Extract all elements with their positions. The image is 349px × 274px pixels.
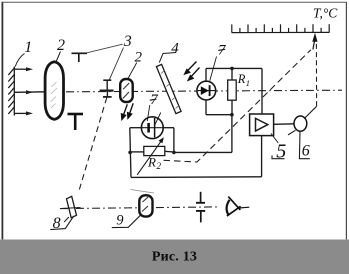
svg-text:2: 2 bbox=[57, 37, 65, 54]
svg-text:9: 9 bbox=[116, 212, 124, 228]
svg-text:8: 8 bbox=[53, 215, 61, 232]
svg-text:6: 6 bbox=[302, 143, 310, 160]
svg-text:1: 1 bbox=[246, 78, 250, 88]
svg-text:2: 2 bbox=[157, 161, 162, 171]
svg-text:2: 2 bbox=[135, 50, 143, 66]
svg-text:R: R bbox=[147, 155, 156, 170]
svg-text:5: 5 bbox=[276, 140, 286, 162]
svg-text:T,°C: T,°C bbox=[313, 6, 338, 21]
svg-text:Рис. 13: Рис. 13 bbox=[152, 250, 197, 265]
svg-text:1: 1 bbox=[24, 39, 32, 56]
svg-text:4: 4 bbox=[171, 40, 179, 56]
svg-text:3: 3 bbox=[123, 33, 132, 50]
svg-text:R: R bbox=[237, 72, 246, 86]
